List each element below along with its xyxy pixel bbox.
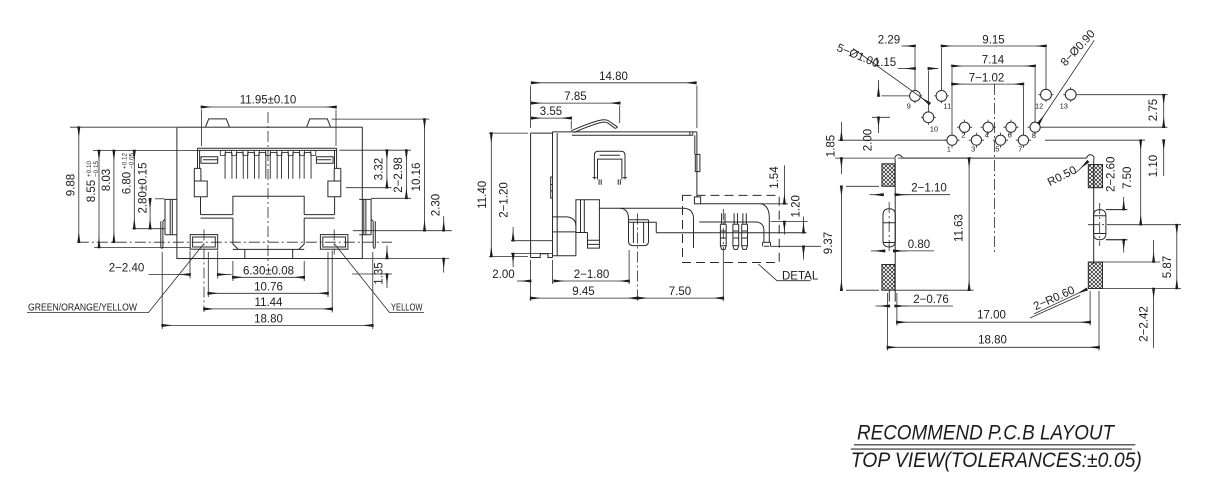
dim 18.80 xyxy=(887,291,1099,351)
jack opening left edge xyxy=(198,148,200,168)
plug opening xyxy=(233,196,304,249)
dim 2.00 xyxy=(531,260,553,301)
dim 1.85 xyxy=(840,122,842,140)
LED horizontal centerline xyxy=(78,241,392,243)
svg-text:8−Ø0.90: 8−Ø0.90 xyxy=(1059,28,1098,69)
dim 2-0.76 xyxy=(876,305,890,307)
dim 6.30 xyxy=(233,261,304,281)
svg-text:DETAL: DETAL xyxy=(782,271,819,283)
shield leg strip right xyxy=(371,219,375,248)
pads round xyxy=(908,87,1079,148)
side flange right xyxy=(359,199,371,234)
shield hook leg xyxy=(757,204,771,247)
pin pad 1 xyxy=(947,135,957,145)
pin pad 3 xyxy=(971,135,981,145)
svg-text:1.20: 1.20 xyxy=(791,195,803,217)
svg-text:9.88: 9.88 xyxy=(66,174,78,196)
svg-text:3: 3 xyxy=(971,145,975,154)
dim 3.55 xyxy=(570,121,572,130)
svg-text:5: 5 xyxy=(995,144,999,153)
svg-text:9.37: 9.37 xyxy=(823,232,835,254)
pin pad 7 xyxy=(1018,135,1028,145)
pcb centerline xyxy=(889,84,1110,255)
dim 0.80 xyxy=(871,250,885,252)
dim 9.37 xyxy=(846,186,879,290)
LED window left xyxy=(190,235,218,250)
post peg xyxy=(588,233,600,249)
svg-text:TOP VIEW(TOLERANCES:±0.05): TOP VIEW(TOLERANCES:±0.05) xyxy=(851,449,1142,472)
pad 9 xyxy=(910,91,921,102)
dim 7.85 xyxy=(619,106,621,124)
pin pad 6 xyxy=(1006,122,1016,132)
centerlines xyxy=(78,112,392,312)
plug guide rails xyxy=(201,215,335,219)
through-hole pin 3 xyxy=(742,213,748,249)
dim 8.03 xyxy=(113,151,115,243)
svg-text:14.80: 14.80 xyxy=(599,71,628,83)
front face nub xyxy=(551,177,553,198)
ref line pad9 row xyxy=(881,95,908,97)
svg-text:2.29: 2.29 xyxy=(878,35,900,47)
keyhole slot left xyxy=(883,209,895,247)
dim 7-1.02 xyxy=(1022,86,1024,134)
dim 1.20 (detail) xyxy=(771,245,822,247)
svg-text:2.75: 2.75 xyxy=(1148,99,1160,121)
svg-text:9.45: 9.45 xyxy=(572,286,594,298)
svg-text:−0.15: −0.15 xyxy=(93,161,100,177)
svg-text:R0.50: R0.50 xyxy=(1046,164,1079,189)
pcb step xyxy=(649,222,657,232)
dim 2.00 xyxy=(878,80,880,96)
side latch right xyxy=(328,168,341,214)
shield slot hatch lower right xyxy=(1088,262,1102,289)
svg-text:8.55: 8.55 xyxy=(86,180,98,202)
LED vertical centerlines xyxy=(203,230,205,313)
dim 11.95 xyxy=(202,110,337,147)
leader 5-o1.00 xyxy=(853,49,930,104)
svg-text:RECOMMEND P.C.B LAYOUT: RECOMMEND P.C.B LAYOUT xyxy=(857,422,1116,445)
jack opening right edge xyxy=(335,148,337,168)
pin centerlines xyxy=(638,209,724,302)
svg-text:GREEN/ORANGE/YELLOW: GREEN/ORANGE/YELLOW xyxy=(28,301,137,313)
svg-text:0.80: 0.80 xyxy=(908,239,930,251)
leader 8-o0.90 xyxy=(1039,40,1095,123)
pad 11 xyxy=(936,91,947,102)
pcb outline right edge xyxy=(1093,160,1095,264)
svg-text:5.87: 5.87 xyxy=(1162,256,1174,278)
ref line outline top left xyxy=(835,157,894,159)
svg-text:2−0.76: 2−0.76 xyxy=(913,294,949,306)
dim 10.16 xyxy=(332,119,452,231)
pad 10 xyxy=(923,112,934,123)
mounting post xyxy=(576,200,600,256)
ref line pin row lower xyxy=(838,139,946,141)
back tab lower xyxy=(694,197,700,204)
svg-text:2−R0.60: 2−R0.60 xyxy=(1032,284,1077,313)
pin pad 2 xyxy=(960,122,970,132)
dim 6.80 xyxy=(132,228,165,230)
svg-text:2.00: 2.00 xyxy=(492,269,514,281)
detail block xyxy=(699,204,762,222)
detail dashed box xyxy=(683,195,780,262)
dim 2.29 xyxy=(915,48,942,89)
dim 10.76 xyxy=(208,252,328,297)
corner block left xyxy=(201,157,218,164)
leader R0.50 xyxy=(1075,162,1088,174)
shield leg strip left xyxy=(161,219,165,248)
svg-text:8: 8 xyxy=(1032,131,1036,140)
dim 7.14 xyxy=(952,68,1035,134)
pad 12 xyxy=(1041,89,1052,100)
corner block right xyxy=(316,157,333,164)
top right seam xyxy=(690,132,693,135)
svg-text:6.30±0.08: 6.30±0.08 xyxy=(243,265,294,277)
svg-text:10: 10 xyxy=(930,125,938,134)
through-hole pin 1 xyxy=(720,213,726,249)
shield latch clip xyxy=(593,151,627,185)
dim 18.80 xyxy=(162,252,373,329)
svg-text:7.50: 7.50 xyxy=(669,286,691,298)
svg-text:11.40: 11.40 xyxy=(477,181,489,209)
side flange left xyxy=(165,199,177,234)
svg-text:2.00: 2.00 xyxy=(863,129,875,151)
dim 2-1.20 xyxy=(511,241,553,254)
connector body outline xyxy=(177,127,362,258)
dim 1.15 xyxy=(927,71,929,111)
dim 2-1.10 xyxy=(870,194,884,196)
svg-text:10.16: 10.16 xyxy=(411,163,423,192)
body interior bottom xyxy=(599,208,693,248)
dim 17.00 xyxy=(897,291,1090,326)
svg-text:18.80: 18.80 xyxy=(978,335,1007,347)
svg-text:2.30: 2.30 xyxy=(431,194,443,216)
pin pad 5 xyxy=(995,135,1005,145)
svg-text:+0.12: +0.12 xyxy=(122,153,129,169)
shield slot hatch lower left xyxy=(882,265,895,291)
svg-text:1: 1 xyxy=(947,144,951,153)
dim 1.54 xyxy=(761,204,808,222)
svg-text:5−Ø1.00: 5−Ø1.00 xyxy=(835,42,881,70)
dim 9.15 xyxy=(1045,48,1047,88)
svg-text:7: 7 xyxy=(1018,145,1022,154)
svg-text:11: 11 xyxy=(944,102,952,111)
svg-text:7−1.02: 7−1.02 xyxy=(969,73,1005,85)
front flange xyxy=(531,132,553,258)
dim 7.50 (side) xyxy=(722,252,724,301)
pin pad 8 xyxy=(1030,122,1040,132)
solder pad right xyxy=(1094,210,1106,240)
svg-text:7.50: 7.50 xyxy=(1122,167,1134,189)
svg-text:+0.10: +0.10 xyxy=(86,161,93,177)
dim 2.80 xyxy=(155,198,165,200)
dim 11.40 xyxy=(489,133,528,256)
svg-text:2−2.42: 2−2.42 xyxy=(1139,306,1151,342)
bottom area: flange foot with notch xyxy=(531,254,576,258)
dim 8.55 xyxy=(98,151,100,248)
shield slot hatch upper left xyxy=(882,164,895,187)
dim 2-2.40 xyxy=(149,274,191,276)
through-hole pin 2 xyxy=(733,213,739,249)
svg-text:13: 13 xyxy=(1060,102,1068,111)
ref lines pads right xyxy=(1042,95,1168,141)
corner arc left R0.50 xyxy=(895,155,902,160)
leader GREEN/ORANGE/YELLOW xyxy=(27,244,204,313)
svg-text:1.54: 1.54 xyxy=(769,166,781,189)
dimensions middle view xyxy=(489,83,821,301)
dim 2.30 xyxy=(362,258,449,260)
svg-text:1.35: 1.35 xyxy=(374,262,386,284)
dim 7.50 (pcb) xyxy=(1110,224,1181,226)
dim 9.45 xyxy=(531,297,638,299)
leader 2-R0.60 xyxy=(1034,289,1087,314)
leader DETAL xyxy=(758,264,810,281)
body top xyxy=(553,132,697,135)
dim 11.63 xyxy=(895,158,973,290)
svg-text:2−1.10: 2−1.10 xyxy=(911,183,947,195)
svg-text:2−2.40: 2−2.40 xyxy=(109,263,145,275)
inner front wall xyxy=(553,133,576,255)
svg-text:18.80: 18.80 xyxy=(254,314,283,326)
plug tab slot xyxy=(233,249,304,258)
svg-text:11.95±0.10: 11.95±0.10 xyxy=(240,95,297,107)
dim 5.87 xyxy=(1103,288,1182,290)
pcb outline left edge xyxy=(889,160,895,302)
svg-text:3.32: 3.32 xyxy=(374,158,386,180)
svg-text:−0.05: −0.05 xyxy=(129,153,136,169)
dim 2-1.80 xyxy=(628,250,630,284)
svg-text:2−2.60: 2−2.60 xyxy=(1106,157,1118,193)
top latch bump left xyxy=(206,119,230,127)
svg-text:2−1.20: 2−1.20 xyxy=(499,182,511,218)
dimensions right view xyxy=(835,40,1181,350)
svg-text:17.00: 17.00 xyxy=(977,309,1006,321)
svg-text:9: 9 xyxy=(907,102,911,111)
dim 2-2.98 xyxy=(371,197,411,199)
pad 13 xyxy=(1065,89,1076,100)
pcb surface line xyxy=(656,232,806,234)
shield slot hatch upper right xyxy=(1088,165,1102,188)
dim 1.10 xyxy=(1163,140,1165,176)
svg-text:7.85: 7.85 xyxy=(564,91,586,103)
svg-text:2−1.80: 2−1.80 xyxy=(574,269,610,281)
dim 14.80 xyxy=(531,86,697,129)
LED window right xyxy=(320,235,348,250)
corner arc right R0.50 xyxy=(1087,155,1094,160)
back tab upper xyxy=(695,154,700,171)
dim 2-2.42 xyxy=(1103,261,1161,263)
dim 2-2.60 xyxy=(1106,210,1127,240)
dim 11.44 xyxy=(331,251,333,313)
svg-text:4: 4 xyxy=(985,131,989,140)
dim 3.32 xyxy=(339,150,411,188)
dim 2.75 xyxy=(1163,95,1165,128)
svg-text:6: 6 xyxy=(1008,131,1012,140)
svg-text:11.63: 11.63 xyxy=(954,214,966,242)
pcb outline top edge xyxy=(902,157,1086,159)
vertical centerline xyxy=(267,112,269,266)
svg-text:YELLOW: YELLOW xyxy=(391,301,423,313)
pin pad 4 xyxy=(983,122,993,132)
svg-text:6.80: 6.80 xyxy=(122,172,134,194)
dimensions left view xyxy=(27,107,452,329)
svg-text:2.80±0.15: 2.80±0.15 xyxy=(138,162,150,213)
svg-text:10.76: 10.76 xyxy=(254,281,283,293)
svg-text:3.55: 3.55 xyxy=(540,106,562,118)
body right edge xyxy=(695,132,697,197)
underline 2-R0.60 xyxy=(1030,296,1080,319)
svg-text:11.44: 11.44 xyxy=(255,297,284,309)
dim 1.35 xyxy=(352,273,392,275)
grounding spring xyxy=(571,120,617,133)
contact pin bundle xyxy=(620,208,649,245)
ref line pad10 row xyxy=(872,116,890,118)
contact comb xyxy=(220,150,315,178)
svg-text:7.14: 7.14 xyxy=(982,55,1005,67)
top latch bump right xyxy=(307,119,331,127)
svg-text:2: 2 xyxy=(961,131,965,140)
svg-text:12: 12 xyxy=(1035,102,1043,111)
side latch left xyxy=(194,168,207,214)
title underline xyxy=(851,445,1136,449)
svg-text:9.15: 9.15 xyxy=(982,35,1004,47)
svg-text:2−2.98: 2−2.98 xyxy=(393,157,405,193)
svg-text:1.10: 1.10 xyxy=(1148,155,1160,177)
dim 9.88 xyxy=(70,127,198,247)
leader YELLOW xyxy=(334,244,424,313)
jack opening top border xyxy=(198,148,337,150)
svg-text:8.03: 8.03 xyxy=(101,169,113,191)
svg-text:1.85: 1.85 xyxy=(826,135,838,157)
